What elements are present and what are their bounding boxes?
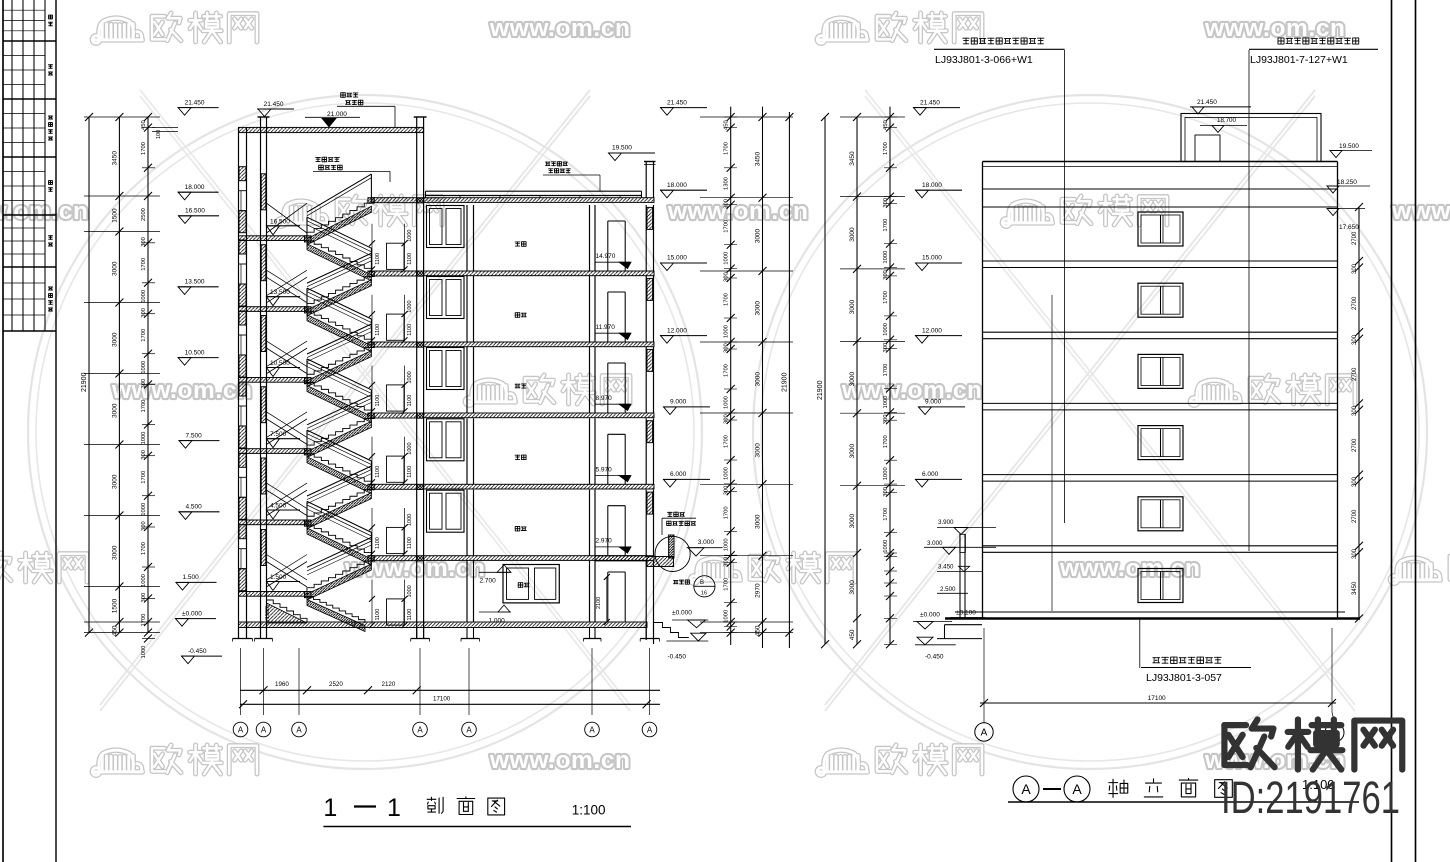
svg-text:1100: 1100 <box>375 466 381 478</box>
svg-text:LJ93J801-3-057: LJ93J801-3-057 <box>1146 672 1222 684</box>
svg-text:1700: 1700 <box>724 220 730 233</box>
svg-text:A: A <box>647 726 653 735</box>
svg-text:1700: 1700 <box>883 291 889 304</box>
svg-text:1000: 1000 <box>141 574 147 587</box>
svg-text:3450: 3450 <box>1352 581 1358 595</box>
svg-text:3000: 3000 <box>755 514 762 529</box>
svg-text:-0.450: -0.450 <box>925 654 944 661</box>
svg-text:3000: 3000 <box>849 514 856 529</box>
svg-text:www.om.cn: www.om.cn <box>0 198 89 225</box>
svg-text:1000: 1000 <box>724 467 730 480</box>
svg-text:1100: 1100 <box>375 537 381 549</box>
svg-text:1700: 1700 <box>141 258 147 271</box>
svg-text:3000: 3000 <box>112 403 119 418</box>
svg-text:300: 300 <box>1352 476 1358 487</box>
svg-text:15.000: 15.000 <box>922 255 942 262</box>
svg-text:16.500: 16.500 <box>270 218 290 225</box>
svg-text:1700: 1700 <box>883 142 889 155</box>
svg-text:1000: 1000 <box>407 585 413 597</box>
svg-text:300: 300 <box>883 198 889 208</box>
svg-text:1700: 1700 <box>141 142 147 155</box>
svg-text:9.000: 9.000 <box>925 399 942 406</box>
svg-text:300: 300 <box>141 308 147 318</box>
svg-text:3.450: 3.450 <box>938 564 954 571</box>
svg-text:A: A <box>238 726 244 735</box>
svg-text:7.500: 7.500 <box>270 431 287 438</box>
svg-text:300: 300 <box>724 486 730 496</box>
svg-text:www.om.cn: www.om.cn <box>489 747 631 774</box>
svg-text:2970: 2970 <box>755 583 762 598</box>
svg-text:2.500: 2.500 <box>940 586 956 593</box>
svg-text:1100: 1100 <box>375 395 381 407</box>
svg-text:1100: 1100 <box>407 253 413 265</box>
svg-text:www.om.cn: www.om.cn <box>489 15 631 42</box>
svg-text:1700: 1700 <box>724 364 730 377</box>
svg-text:1700: 1700 <box>141 614 147 627</box>
svg-text:LJ93J801-3-066+W1: LJ93J801-3-066+W1 <box>935 54 1033 66</box>
svg-text:9.000: 9.000 <box>670 399 687 406</box>
svg-text:A: A <box>296 726 302 735</box>
svg-text:3000: 3000 <box>849 444 856 459</box>
svg-text:21.450: 21.450 <box>185 99 205 106</box>
svg-text:6.000: 6.000 <box>922 471 939 478</box>
svg-text:3000: 3000 <box>849 299 856 314</box>
svg-text:3000: 3000 <box>755 443 762 458</box>
svg-text:300: 300 <box>883 270 889 280</box>
svg-text:±0.000: ±0.000 <box>182 610 202 617</box>
svg-text:1700: 1700 <box>141 400 147 413</box>
svg-text:8.970: 8.970 <box>596 395 613 402</box>
svg-text:1000: 1000 <box>883 251 889 264</box>
svg-text:1000: 1000 <box>141 290 147 303</box>
svg-text:300: 300 <box>141 521 147 531</box>
svg-text:www.om.cn: www.om.cn <box>1391 198 1450 225</box>
svg-text:2120: 2120 <box>382 681 396 688</box>
svg-text:A: A <box>1021 781 1031 797</box>
svg-text:1960: 1960 <box>275 681 289 688</box>
svg-text:300: 300 <box>724 414 730 424</box>
svg-text:2700: 2700 <box>1352 509 1358 523</box>
svg-text:300: 300 <box>141 450 147 460</box>
svg-text:3000: 3000 <box>755 228 762 243</box>
svg-text:1000: 1000 <box>724 252 730 265</box>
svg-text:1000: 1000 <box>724 610 730 623</box>
svg-text:3000: 3000 <box>112 261 119 276</box>
svg-text:2100: 2100 <box>596 597 602 609</box>
svg-text:1000: 1000 <box>724 396 730 409</box>
svg-text:5.970: 5.970 <box>596 466 613 473</box>
svg-text:12.000: 12.000 <box>667 327 687 334</box>
svg-text:17100: 17100 <box>433 696 451 703</box>
svg-text:1500: 1500 <box>112 598 119 613</box>
svg-text:www.om.cn: www.om.cn <box>111 377 253 404</box>
svg-text:±0.100: ±0.100 <box>956 610 976 617</box>
svg-text:13.500: 13.500 <box>270 289 290 296</box>
svg-text:3000: 3000 <box>755 372 762 387</box>
svg-text:A: A <box>261 726 267 735</box>
svg-text:1700: 1700 <box>141 471 147 484</box>
svg-text:2700: 2700 <box>1352 438 1358 452</box>
svg-text:17.650: 17.650 <box>1339 224 1359 231</box>
svg-text:2700: 2700 <box>1352 296 1358 310</box>
svg-text:1100: 1100 <box>407 395 413 407</box>
svg-text:1000: 1000 <box>407 514 413 526</box>
svg-text:21.450: 21.450 <box>920 99 940 106</box>
svg-text:21900: 21900 <box>782 372 789 392</box>
svg-text:1:100: 1:100 <box>572 803 606 818</box>
svg-text:450: 450 <box>141 120 147 130</box>
svg-text:450: 450 <box>883 120 889 130</box>
svg-text:300: 300 <box>724 557 730 567</box>
svg-text:21.450: 21.450 <box>1197 99 1217 106</box>
svg-text:2500: 2500 <box>141 208 147 221</box>
svg-text:3.900: 3.900 <box>938 519 954 526</box>
svg-text:1100: 1100 <box>407 324 413 336</box>
svg-text:1700: 1700 <box>724 142 730 155</box>
svg-text:21900: 21900 <box>817 380 824 400</box>
svg-text:3450: 3450 <box>755 151 762 166</box>
svg-text:4.500: 4.500 <box>186 504 203 511</box>
svg-text:18.700: 18.700 <box>1217 117 1236 124</box>
svg-text:1.500: 1.500 <box>270 574 287 581</box>
svg-text:11.970: 11.970 <box>596 324 616 331</box>
svg-text:1700: 1700 <box>883 435 889 448</box>
svg-text:1700: 1700 <box>883 364 889 377</box>
svg-text:1100: 1100 <box>375 609 381 621</box>
svg-text:1000: 1000 <box>724 325 730 338</box>
svg-text:300: 300 <box>724 272 730 282</box>
svg-text:4.500: 4.500 <box>270 503 287 510</box>
svg-text:17100: 17100 <box>1148 695 1166 702</box>
svg-text:3450: 3450 <box>849 151 856 166</box>
svg-text:3450: 3450 <box>112 151 119 166</box>
svg-text:13.500: 13.500 <box>185 279 205 286</box>
svg-text:A: A <box>589 726 595 735</box>
svg-text:1100: 1100 <box>407 609 413 621</box>
svg-text:1500: 1500 <box>112 208 119 223</box>
svg-text:18.000: 18.000 <box>667 182 687 189</box>
svg-text:1700: 1700 <box>724 293 730 306</box>
svg-text:www.om.cn: www.om.cn <box>667 198 809 225</box>
svg-text:21900: 21900 <box>81 372 88 392</box>
svg-text:1700: 1700 <box>724 578 730 591</box>
svg-text:10.500: 10.500 <box>185 349 205 356</box>
svg-text:±0.000: ±0.000 <box>920 612 940 619</box>
svg-text:A: A <box>417 726 423 735</box>
svg-text:www.om.cn: www.om.cn <box>841 377 983 404</box>
svg-text:300: 300 <box>1352 263 1358 274</box>
svg-text:1000: 1000 <box>141 432 147 445</box>
svg-text:12.000: 12.000 <box>922 327 942 334</box>
svg-text:10.500: 10.500 <box>270 360 290 367</box>
svg-text:300: 300 <box>724 343 730 353</box>
svg-text:1000: 1000 <box>141 503 147 516</box>
svg-text:2520: 2520 <box>329 681 343 688</box>
svg-text:1000: 1000 <box>407 371 413 383</box>
svg-text:3000: 3000 <box>112 332 119 347</box>
svg-text:1000: 1000 <box>883 396 889 409</box>
svg-text:1700: 1700 <box>883 219 889 232</box>
svg-text:1000: 1000 <box>407 300 413 312</box>
svg-text:LJ93J801-7-127+W1: LJ93J801-7-127+W1 <box>1250 54 1348 66</box>
svg-text:18.000: 18.000 <box>922 182 942 189</box>
svg-text:1000: 1000 <box>141 646 147 659</box>
svg-text:(1500): (1500) <box>265 605 271 621</box>
svg-text:18.000: 18.000 <box>185 184 205 191</box>
svg-text:2.700: 2.700 <box>480 578 497 585</box>
svg-text:1.000: 1.000 <box>489 618 506 625</box>
svg-text:1100: 1100 <box>375 324 381 336</box>
svg-text:300: 300 <box>141 379 147 389</box>
svg-text:300: 300 <box>141 237 147 247</box>
svg-text:16: 16 <box>701 591 707 597</box>
svg-text:1000: 1000 <box>141 361 147 374</box>
svg-text:1000: 1000 <box>724 538 730 551</box>
svg-text:A: A <box>1072 781 1082 797</box>
svg-text:16.500: 16.500 <box>185 208 205 215</box>
svg-text:300: 300 <box>141 593 147 603</box>
svg-text:3.000: 3.000 <box>927 540 943 547</box>
svg-text:1000: 1000 <box>883 323 889 336</box>
svg-text:3000: 3000 <box>755 301 762 316</box>
svg-text:1000: 1000 <box>407 230 413 242</box>
svg-text:3000: 3000 <box>849 372 856 387</box>
svg-text:300: 300 <box>883 343 889 353</box>
svg-text:1000: 1000 <box>883 467 889 480</box>
svg-text:1000: 1000 <box>883 540 889 553</box>
svg-text:300: 300 <box>1352 405 1358 416</box>
svg-text:2700: 2700 <box>1352 367 1358 381</box>
svg-text:450: 450 <box>849 629 856 640</box>
svg-text:14.970: 14.970 <box>596 253 616 260</box>
svg-text:-0.450: -0.450 <box>188 648 207 655</box>
svg-text:19.500: 19.500 <box>1339 143 1359 150</box>
svg-text:450: 450 <box>724 120 730 130</box>
svg-text:300: 300 <box>724 199 730 209</box>
svg-text:B: B <box>700 580 704 586</box>
svg-text:7.500: 7.500 <box>186 432 203 439</box>
svg-text:1700: 1700 <box>141 329 147 342</box>
svg-text:1.500: 1.500 <box>183 574 200 581</box>
svg-text:1700: 1700 <box>724 506 730 519</box>
svg-text:2700: 2700 <box>1352 231 1358 245</box>
svg-text:2.970: 2.970 <box>596 538 613 545</box>
svg-text:3000: 3000 <box>112 545 119 560</box>
svg-text:15.000: 15.000 <box>667 255 687 262</box>
svg-text:300: 300 <box>1352 334 1358 345</box>
svg-text:1100: 1100 <box>407 466 413 478</box>
svg-text:1: 1 <box>323 794 337 822</box>
svg-text:1000: 1000 <box>407 442 413 454</box>
svg-text:300: 300 <box>1352 548 1358 559</box>
svg-text:1: 1 <box>387 794 401 822</box>
svg-text:3000: 3000 <box>849 227 856 242</box>
svg-text:1100: 1100 <box>375 253 381 265</box>
svg-text:A: A <box>466 726 472 735</box>
svg-text:3.000: 3.000 <box>698 539 715 546</box>
svg-text:1700: 1700 <box>883 508 889 521</box>
svg-text:3000: 3000 <box>112 474 119 489</box>
svg-text:1700: 1700 <box>724 435 730 448</box>
svg-text:1700: 1700 <box>141 542 147 555</box>
svg-text:21.450: 21.450 <box>667 99 687 106</box>
svg-text:300: 300 <box>883 415 889 425</box>
svg-text:3000: 3000 <box>849 580 856 595</box>
svg-text:19.500: 19.500 <box>612 145 632 152</box>
svg-text:-0.450: -0.450 <box>668 653 687 660</box>
svg-text:1300: 1300 <box>724 177 730 190</box>
svg-text:18.250: 18.250 <box>1337 179 1357 186</box>
svg-text:300: 300 <box>883 487 889 497</box>
svg-text:21.450: 21.450 <box>264 101 284 108</box>
svg-text:ID:2191761: ID:2191761 <box>1221 772 1400 823</box>
svg-text:A: A <box>981 728 988 739</box>
svg-text:6.000: 6.000 <box>670 471 687 478</box>
svg-text:100: 100 <box>156 130 162 139</box>
svg-text:1100: 1100 <box>407 537 413 549</box>
svg-text:±0.000: ±0.000 <box>672 609 692 616</box>
